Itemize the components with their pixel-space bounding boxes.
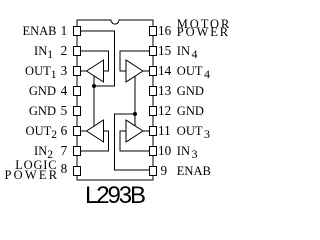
pin number 1 bbox=[61, 24, 68, 37]
label LOGIC POWER pin8 line1 bbox=[15, 159, 57, 172]
pin number 6 bbox=[61, 124, 68, 137]
IC body U1 L293B with pin-1 notch bbox=[77, 20, 153, 180]
pin number 9 bbox=[161, 164, 168, 177]
wire OUT1 buffer A1 output to pin3 bbox=[81, 70, 87, 72]
pin 14 box bbox=[150, 67, 157, 76]
wire OUT3 buffer A3 output to pin11 bbox=[143, 130, 150, 132]
label OUT2 pin6 bbox=[26, 125, 57, 139]
pin 12 box bbox=[150, 107, 157, 116]
pin 11 box bbox=[150, 127, 157, 136]
pin 15 box bbox=[150, 47, 157, 56]
label GND pin5 bbox=[29, 105, 56, 118]
label OUT1 pin3 bbox=[25, 65, 56, 79]
wire left enable vertical bbox=[93, 76, 95, 126]
pin 7 box bbox=[74, 147, 81, 156]
wire ENAB pin1 to enable junction bbox=[81, 31, 115, 86]
pin 6 box bbox=[74, 127, 81, 136]
wire OUT2 buffer A2 output to pin6 bbox=[81, 130, 87, 132]
node left enable junction bbox=[92, 84, 96, 88]
wire IN2 pin7 to buffer A2 input bbox=[81, 131, 109, 151]
wire OUT4 buffer A4 output to pin14 bbox=[143, 70, 150, 72]
pin 13 box bbox=[150, 87, 157, 96]
pin number 8 bbox=[61, 162, 68, 175]
pin number 15 bbox=[158, 44, 171, 57]
pin 9 box bbox=[150, 167, 157, 176]
pin number 2 bbox=[61, 44, 68, 57]
label GND pin4 bbox=[29, 85, 56, 98]
label MOTOR POWER pin16 line1 bbox=[177, 18, 231, 31]
pin number 12 bbox=[158, 104, 171, 117]
buffer A4 (driver 4, OUT4) bbox=[126, 60, 143, 82]
label IN4 pin15 bbox=[177, 45, 198, 58]
IC pinout schematic of L293B bbox=[0, 0, 240, 220]
pin number 3 bbox=[61, 64, 68, 77]
node right enable junction bbox=[133, 112, 137, 116]
pin 4 box bbox=[74, 87, 81, 96]
pin number 16 bbox=[158, 24, 171, 37]
pin number 7 bbox=[61, 144, 68, 157]
label GND pin12 bbox=[177, 105, 204, 118]
pin number 4 bbox=[61, 84, 68, 97]
pin 2 box bbox=[74, 47, 81, 56]
buffer A2 (driver 2, OUT2) bbox=[87, 120, 104, 142]
label IN3 pin10 bbox=[177, 145, 198, 158]
wire right enable vertical bbox=[134, 76, 136, 126]
label ENAB pin9 bbox=[177, 165, 211, 178]
pin number 13 bbox=[158, 84, 171, 97]
wire IN4 pin15 to buffer A4 input bbox=[120, 51, 150, 71]
pin 1 box bbox=[74, 27, 81, 36]
wire IN1 pin2 to buffer A1 input bbox=[81, 51, 109, 71]
label IN1 pin2 bbox=[34, 45, 53, 59]
label GND pin13 bbox=[177, 85, 204, 98]
label OUT4 pin14 bbox=[177, 65, 210, 78]
pin 5 box bbox=[74, 107, 81, 116]
label LOGIC POWER pin8 line2 bbox=[5, 169, 60, 182]
pin 8 box bbox=[74, 167, 81, 176]
label IN2 pin7 bbox=[34, 145, 53, 159]
pin 3 box bbox=[74, 67, 81, 76]
label MOTOR POWER pin16 line2 bbox=[177, 26, 230, 39]
pin number 14 bbox=[158, 64, 171, 77]
wire ENAB pin9 to right enable junction bbox=[115, 114, 150, 170]
label OUT3 pin11 bbox=[177, 125, 210, 138]
pin number 11 bbox=[158, 124, 171, 137]
wire IN3 pin10 to buffer A3 input bbox=[120, 131, 150, 151]
pin number 10 bbox=[158, 144, 171, 157]
buffer A3 (driver 3, OUT3) bbox=[126, 120, 143, 142]
pin 10 box bbox=[150, 147, 157, 156]
part title L293B bbox=[85, 184, 144, 208]
label ENAB pin1 bbox=[22, 25, 56, 38]
pin 16 box bbox=[150, 27, 157, 36]
pin number 5 bbox=[61, 104, 68, 117]
buffer A1 (driver 1, OUT1) bbox=[87, 60, 104, 82]
